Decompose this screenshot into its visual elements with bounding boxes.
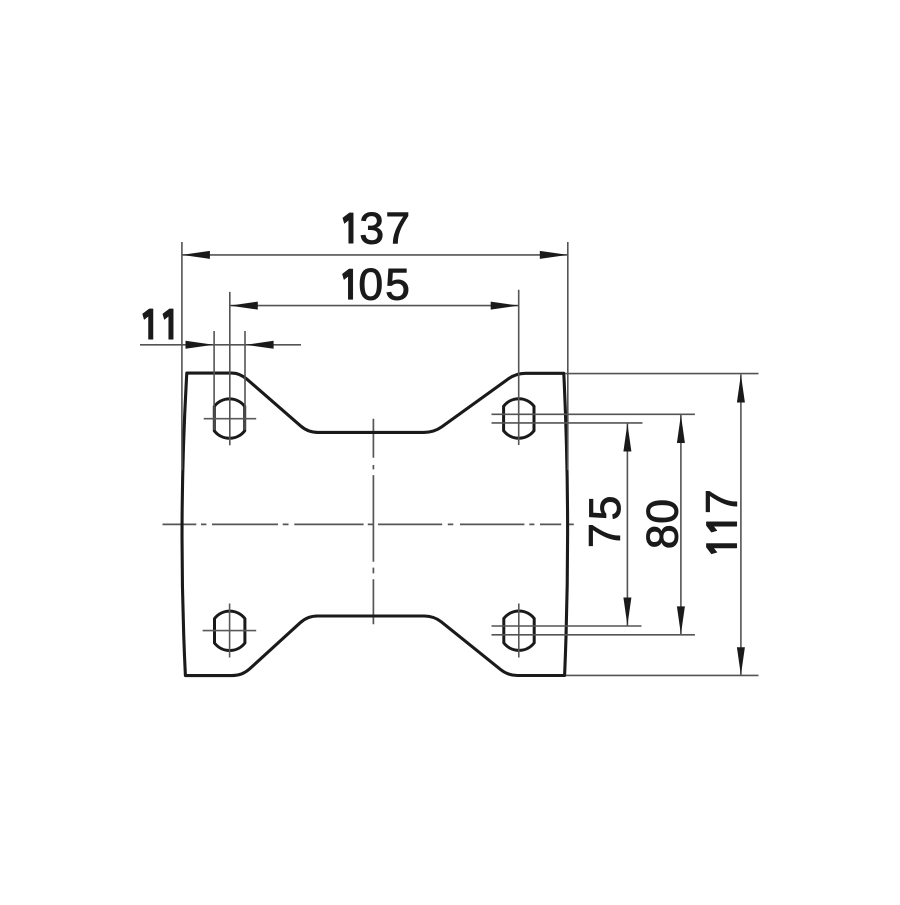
svg-text:0: 0 bbox=[358, 260, 383, 309]
svg-text:3: 3 bbox=[359, 204, 384, 253]
dim 117 extension line bottom (plate bottom edge extended) bbox=[566, 674, 759, 676]
dim 11 extension line right (slot edge) bbox=[244, 331, 246, 430]
centerline vertical (plate axis) bbox=[372, 419, 374, 624]
dim 75 line bbox=[626, 424, 628, 626]
dim 137 line bbox=[182, 254, 568, 256]
dim 117 arrow top bbox=[737, 375, 745, 403]
crosshair vertical bottom-right hole bbox=[518, 604, 520, 658]
dim 117 extension line top (plate top edge extended) bbox=[565, 373, 759, 375]
svg-text:0: 0 bbox=[638, 499, 687, 524]
dim 105 arrow left bbox=[230, 302, 258, 310]
dim 137 arrow right bbox=[540, 251, 568, 259]
dim 137 label bbox=[343, 204, 410, 253]
svg-text:5: 5 bbox=[581, 496, 630, 521]
dim 117 arrow bottom bbox=[737, 647, 745, 675]
crosshair horizontal top-left hole bbox=[204, 418, 257, 420]
dim 80 extension line bottom bbox=[492, 634, 695, 636]
dim 11 label bbox=[143, 309, 174, 339]
dim 11 extension line left (slot edge) bbox=[213, 331, 215, 430]
centerline horizontal (plate axis) bbox=[163, 523, 574, 525]
dim 80 line bbox=[680, 415, 682, 634]
dim 11 line bbox=[140, 344, 301, 346]
crosshair vertical bottom-left hole bbox=[229, 604, 231, 658]
dim 75 arrow bottom bbox=[623, 598, 631, 626]
dim 75 extension line bottom bbox=[492, 625, 642, 627]
svg-text:7: 7 bbox=[698, 489, 747, 514]
bolt hole bottom-left bbox=[215, 611, 245, 650]
bolt hole top-right bbox=[504, 399, 534, 438]
dim 117 line bbox=[740, 375, 742, 676]
dim 105 extension line left (hole TL centerline) bbox=[229, 292, 231, 445]
bolt hole bottom-right bbox=[504, 611, 534, 650]
dim 105 extension line right (hole TR centerline) bbox=[518, 290, 520, 445]
svg-text:7: 7 bbox=[581, 523, 630, 548]
dim 117 label bbox=[698, 489, 747, 554]
dim 75 extension line top bbox=[492, 422, 643, 424]
dim 80 extension line top bbox=[492, 413, 695, 415]
dim 105 arrow right bbox=[491, 302, 519, 310]
dim 75 arrow top bbox=[623, 424, 631, 452]
crosshair horizontal bottom-left hole bbox=[203, 630, 257, 632]
svg-text:8: 8 bbox=[638, 524, 687, 549]
dim 11 arrow left (pointing right) bbox=[186, 341, 214, 349]
plate outline bbox=[182, 373, 568, 675]
dim 80 arrow top bbox=[677, 415, 685, 443]
svg-text:5: 5 bbox=[385, 260, 410, 309]
dim 80 label bbox=[638, 499, 687, 549]
dim 105 line bbox=[230, 305, 519, 307]
bolt hole top-left bbox=[214, 399, 244, 438]
dim 105 label bbox=[342, 260, 409, 309]
dim 80 arrow bottom bbox=[677, 606, 685, 634]
dim 75 label bbox=[581, 496, 630, 548]
svg-text:7: 7 bbox=[385, 204, 410, 253]
dim 137 extension line left bbox=[181, 242, 183, 470]
dim 137 extension line right bbox=[567, 242, 569, 470]
dim 11 arrow right (pointing left) bbox=[246, 341, 274, 349]
dim 137 arrow left bbox=[182, 251, 210, 259]
